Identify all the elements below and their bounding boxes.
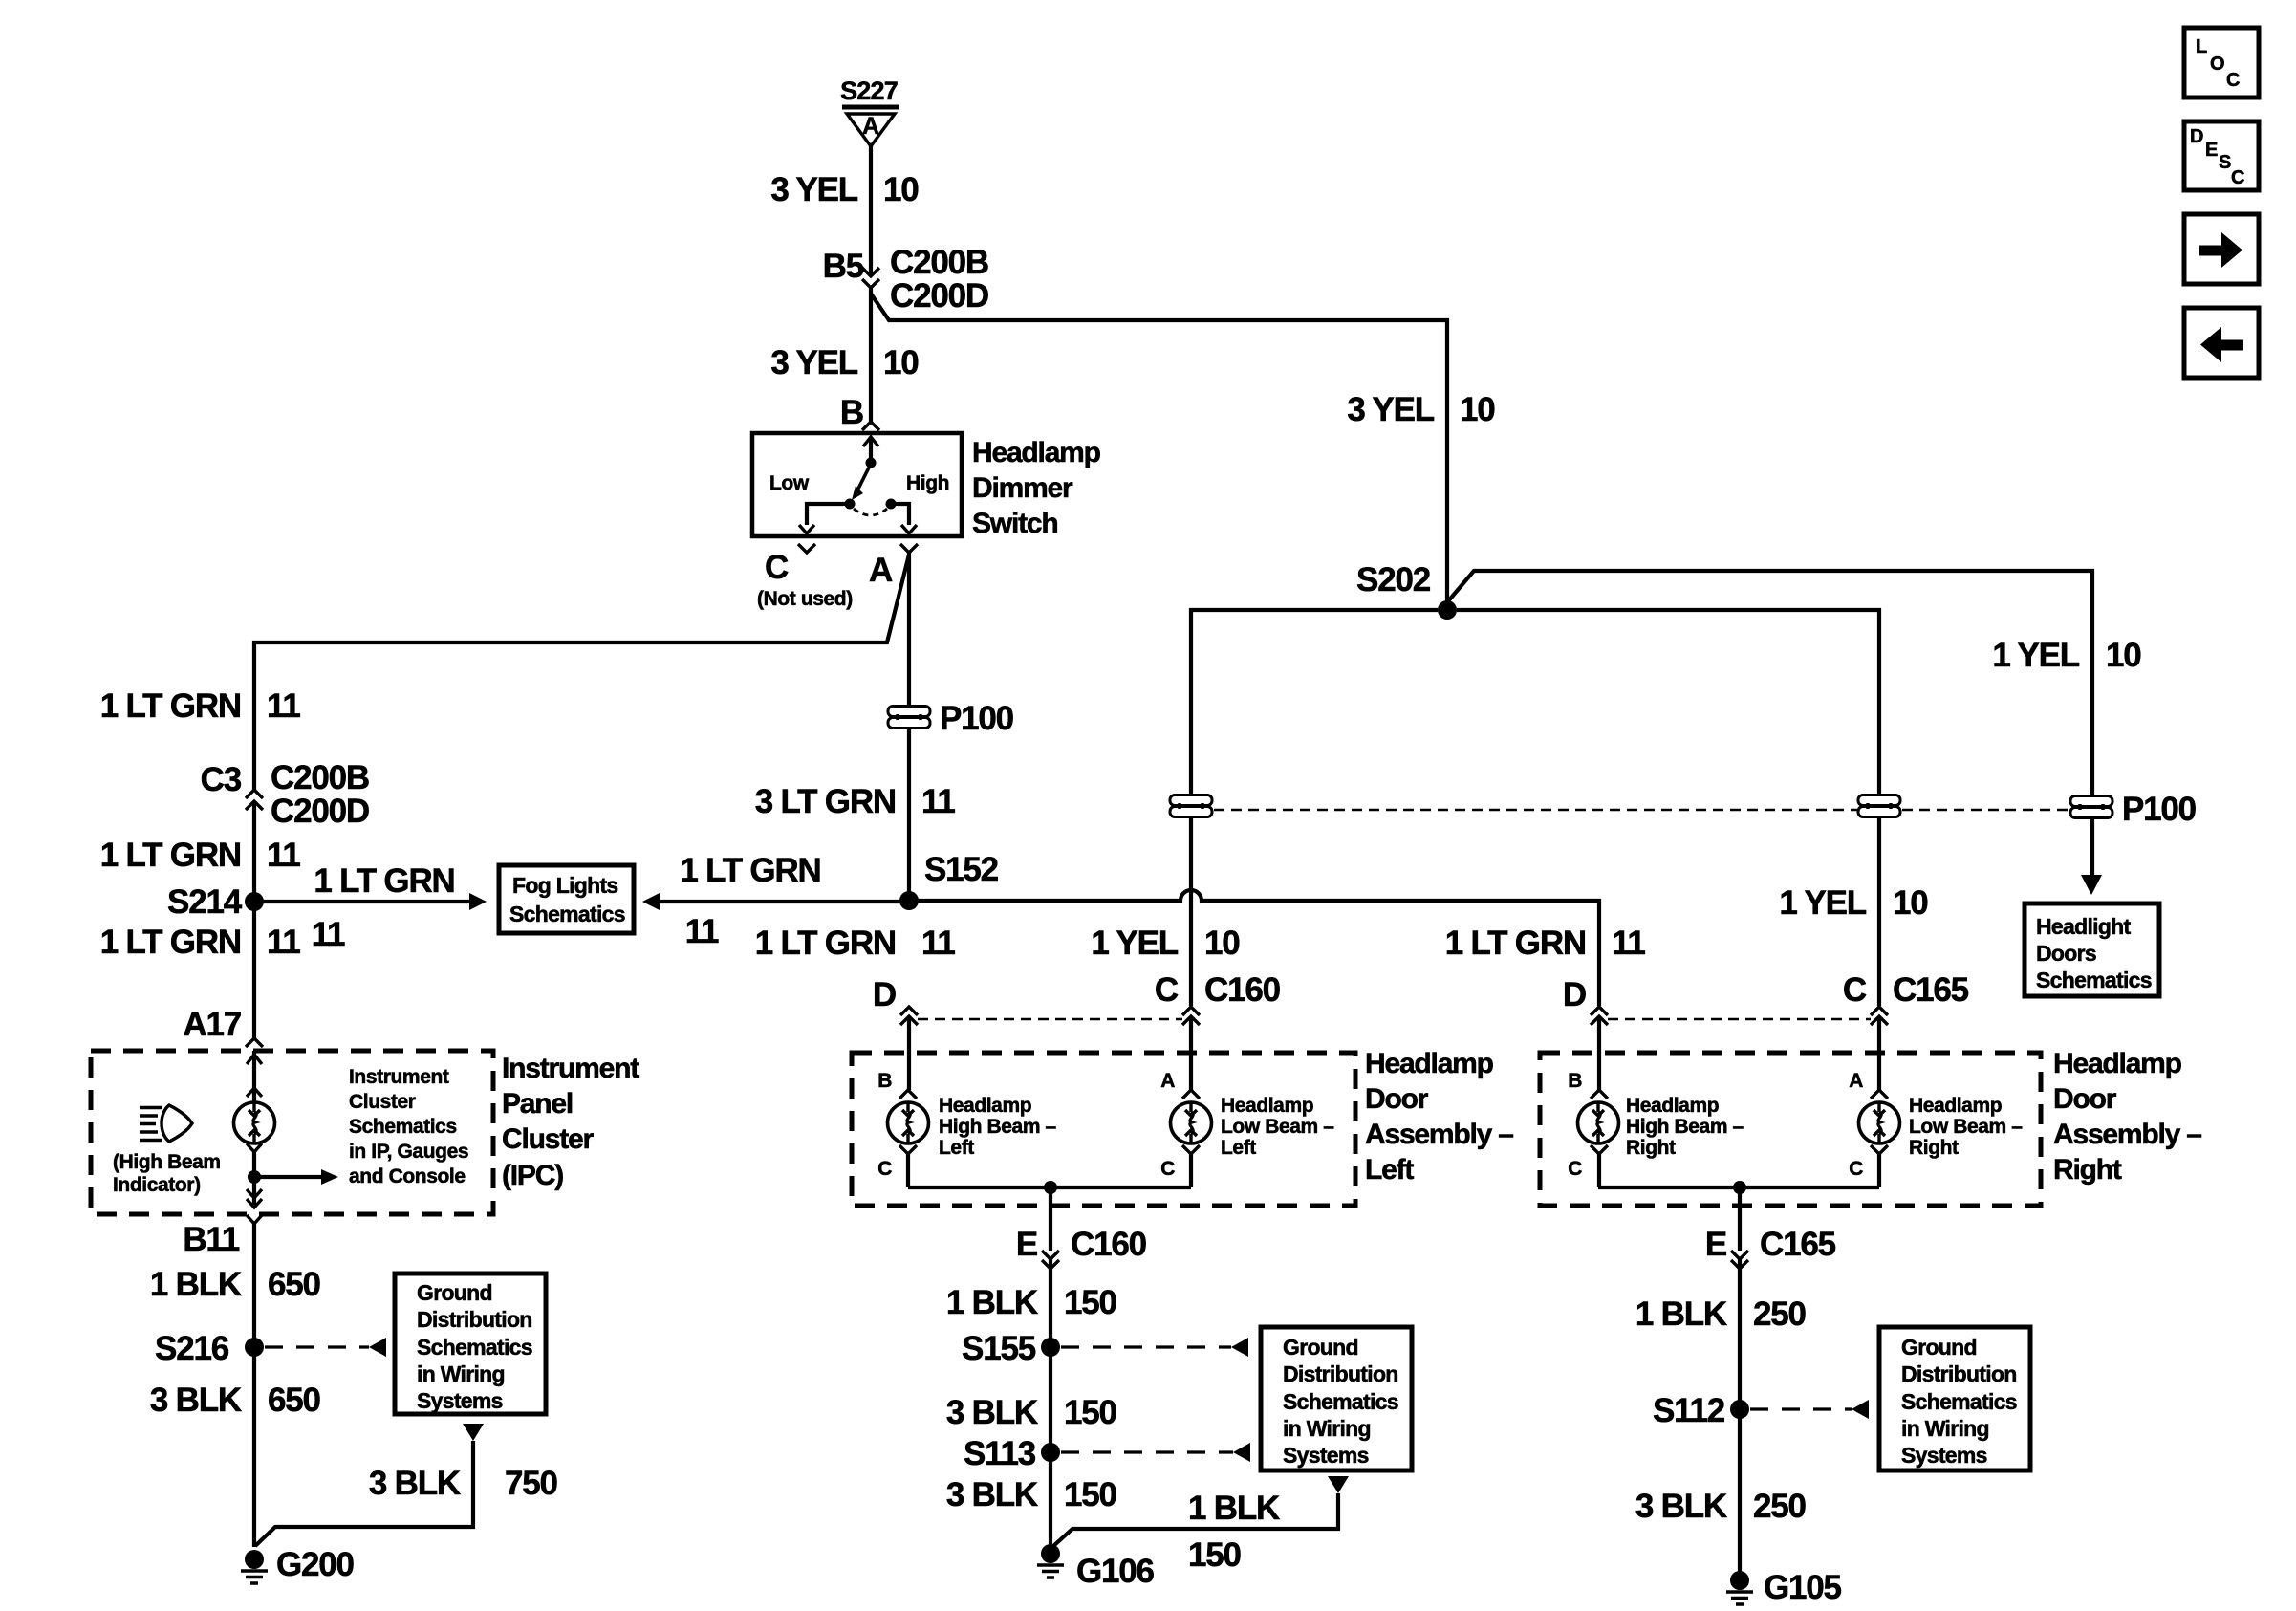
svg-text:C160: C160: [1071, 1226, 1147, 1263]
svg-text:S: S: [2219, 152, 2231, 173]
svg-text:Right: Right: [1909, 1137, 1959, 1159]
wire 3 BLK 750 from box to G200: [255, 1441, 473, 1546]
wire high beam to common: [906, 1154, 910, 1187]
pin B11 chevron below IPC: [247, 1215, 262, 1224]
svg-text:3 BLK: 3 BLK: [150, 1382, 242, 1419]
svg-text:(Not used): (Not used): [757, 588, 853, 610]
svg-text:Door: Door: [2053, 1083, 2117, 1115]
svg-text:and Console: and Console: [349, 1165, 466, 1187]
arrow into headlight doors box: [2081, 875, 2102, 895]
svg-text:Distribution: Distribution: [417, 1307, 532, 1332]
ground distribution box (left): [395, 1274, 546, 1414]
splice S227 off-page symbol: [840, 76, 899, 146]
fog lights schematics box: [499, 865, 634, 933]
wire high beam to common (right): [1597, 1154, 1601, 1187]
label 3 BLK 750: [369, 1465, 558, 1502]
arrowhead from ground distribution box down: [1328, 1476, 1349, 1493]
svg-text:Left: Left: [1365, 1154, 1414, 1186]
wire S152 right with hop over yellow wire, down to D chevron: [909, 890, 1599, 1006]
svg-text:C: C: [1160, 1158, 1175, 1180]
wire E to G105: [1738, 1259, 1742, 1574]
wire common to E pin: [1049, 1187, 1052, 1251]
svg-text:1 LT GRN: 1 LT GRN: [680, 852, 820, 889]
svg-text:S113: S113: [964, 1435, 1036, 1472]
svg-text:Headlamp: Headlamp: [1626, 1095, 1719, 1117]
svg-text:D: D: [1563, 976, 1586, 1013]
svg-text:Indicator): Indicator): [113, 1174, 201, 1196]
svg-text:Schematics: Schematics: [2036, 968, 2152, 992]
label 3 BLK 650: [150, 1382, 321, 1419]
wire B11 to G200: [252, 1224, 256, 1547]
svg-text:B: B: [1568, 1070, 1582, 1092]
svg-text:11: 11: [267, 924, 300, 961]
svg-text:High Beam –: High Beam –: [1626, 1116, 1744, 1138]
previous page button (left arrow): [2184, 308, 2259, 378]
headlamp door assembly right title: [2053, 1048, 2201, 1186]
wire low beam to common (right): [1877, 1154, 1881, 1187]
pin C chevron (left low beam): [1182, 1145, 1200, 1154]
pin A chevron: [900, 544, 918, 553]
svg-text:Systems: Systems: [1283, 1443, 1369, 1468]
label 3 BLK 150 (below S113): [946, 1476, 1117, 1513]
headlamp dimmer switch box: [752, 433, 962, 536]
headlamp high beam left bulb: [888, 1102, 929, 1143]
pin B chevron: [862, 422, 879, 430]
svg-text:Right: Right: [2053, 1154, 2122, 1186]
headlamp high beam right bulb: [1578, 1102, 1619, 1143]
svg-text:High Beam –: High Beam –: [939, 1116, 1057, 1138]
splice S202 junction dot: [1438, 600, 1457, 620]
connector C160 pin C chevrons: [1182, 1007, 1200, 1025]
svg-text:Fog Lights: Fog Lights: [512, 873, 618, 898]
svg-text:C: C: [2226, 70, 2240, 91]
wire S152 to fog lights arrow: [660, 900, 909, 903]
svg-text:1 YEL: 1 YEL: [1779, 884, 1866, 922]
pin C chevron (right high beam): [1591, 1145, 1608, 1154]
svg-text:11: 11: [921, 925, 955, 962]
connector C165 pin D chevrons: [1591, 1007, 1608, 1025]
svg-text:Schematics: Schematics: [1283, 1389, 1398, 1414]
svg-text:1 YEL: 1 YEL: [1091, 925, 1178, 962]
wire S214 down to A17 / IPC: [252, 902, 256, 1038]
wire A17 into IPC: [252, 1051, 256, 1102]
svg-text:C200B: C200B: [271, 759, 369, 796]
chevron below indicator bulb: [247, 1143, 262, 1152]
dimmer switch label: [972, 437, 1101, 539]
arrow into fog lights box (from right): [642, 893, 660, 910]
svg-text:10: 10: [2106, 637, 2141, 674]
svg-text:Dimmer: Dimmer: [972, 472, 1073, 504]
arrowhead from left ground distribution box down: [463, 1424, 484, 1441]
headlight doors schematics box: [2025, 903, 2159, 996]
svg-text:E: E: [2205, 140, 2218, 161]
svg-text:1 LT GRN: 1 LT GRN: [100, 924, 241, 961]
grommet (right low beam wire): [1858, 795, 1900, 817]
label 3 YEL 10 (S202 feed): [1347, 391, 1495, 428]
pass-through grommet P100 (main): [888, 707, 930, 729]
ground G200: [241, 1550, 268, 1583]
svg-text:B11: B11: [183, 1221, 239, 1258]
svg-text:E: E: [1016, 1226, 1037, 1263]
svg-text:Instrument: Instrument: [349, 1066, 449, 1088]
wire S214 to fog lights arrow: [254, 900, 469, 903]
svg-text:Headlamp: Headlamp: [1221, 1095, 1313, 1117]
svg-text:10: 10: [1893, 884, 1928, 922]
svg-text:S152: S152: [924, 851, 999, 888]
wire C chevron into left box: [1189, 1016, 1193, 1090]
svg-text:Instrument: Instrument: [502, 1053, 639, 1084]
label 1 LT GRN 11 (below S214): [100, 924, 301, 961]
svg-text:Headlamp: Headlamp: [2053, 1048, 2182, 1079]
svg-text:in Wiring: in Wiring: [1901, 1416, 1989, 1441]
svg-text:Assembly –: Assembly –: [2053, 1119, 2201, 1150]
wire S227 to connector C200: [869, 146, 873, 274]
svg-text:C: C: [1843, 971, 1867, 1009]
pin B chevron (right high beam): [1591, 1090, 1608, 1099]
svg-text:Left: Left: [939, 1137, 974, 1159]
svg-text:Schematics: Schematics: [349, 1116, 457, 1138]
svg-text:3 LT GRN: 3 LT GRN: [755, 783, 896, 820]
dashed reference S216 to ground distribution box: [265, 1345, 369, 1348]
pin B chevron (left high beam): [899, 1090, 917, 1099]
label 1 LT GRN 11 (left high beam): [755, 925, 956, 962]
svg-text:3 BLK: 3 BLK: [946, 1394, 1038, 1431]
splice S113 junction dot: [1041, 1443, 1060, 1462]
dimmer switch internals: [769, 437, 949, 533]
common ground wire inside right box: [1598, 1186, 1879, 1189]
svg-text:Ground: Ground: [1283, 1335, 1358, 1360]
wire 1 BLK 150 from box to G106: [1052, 1493, 1338, 1547]
svg-text:1 LT GRN: 1 LT GRN: [100, 837, 241, 874]
pin A17 chevron: [246, 1038, 263, 1047]
svg-text:Ground: Ground: [1901, 1335, 1977, 1360]
dashed connector line C160: [918, 1018, 1182, 1021]
svg-text:Headlamp: Headlamp: [1909, 1095, 2002, 1117]
label 3 BLK 150 (above S113): [946, 1394, 1117, 1431]
headlamp low beam right bulb: [1859, 1102, 1900, 1143]
splice S112 junction dot: [1730, 1400, 1749, 1419]
connector C165 pin C chevrons: [1871, 1007, 1888, 1025]
svg-text:S155: S155: [962, 1330, 1036, 1367]
svg-text:A: A: [1160, 1070, 1175, 1092]
svg-text:Distribution: Distribution: [1901, 1361, 2017, 1386]
label 1 YEL 10 (far right feed): [1992, 637, 2141, 674]
svg-text:in Wiring: in Wiring: [417, 1361, 505, 1386]
splice S152 junction dot: [899, 891, 919, 910]
svg-text:A: A: [862, 113, 879, 140]
svg-text:G106: G106: [1076, 1553, 1155, 1590]
svg-text:Schematics: Schematics: [417, 1335, 532, 1360]
svg-text:High: High: [906, 472, 949, 494]
svg-text:Schematics: Schematics: [509, 902, 625, 926]
svg-text:11: 11: [1612, 925, 1645, 962]
svg-text:C200D: C200D: [271, 793, 369, 830]
headlamp door assembly left title: [1365, 1048, 1513, 1186]
label 3 YEL 10 (top): [770, 171, 919, 208]
svg-text:Headlamp: Headlamp: [939, 1095, 1031, 1117]
svg-text:150: 150: [1064, 1284, 1117, 1321]
wire D chevron into left box: [907, 1016, 911, 1090]
DESC button: [2184, 121, 2259, 190]
svg-text:Left: Left: [1221, 1137, 1256, 1159]
ground G106: [1037, 1544, 1064, 1578]
svg-text:C160: C160: [1204, 971, 1281, 1009]
common ground wire inside left box: [908, 1186, 1191, 1189]
svg-text:250: 250: [1753, 1295, 1807, 1333]
svg-text:C: C: [877, 1158, 892, 1180]
dashed reference S113 to ground distribution box: [1061, 1450, 1233, 1453]
wire C chevron into right box: [1877, 1016, 1881, 1090]
svg-text:S227: S227: [840, 76, 898, 105]
svg-text:1 LT GRN: 1 LT GRN: [1445, 925, 1586, 962]
headlamp high beam right label: [1626, 1095, 1744, 1159]
svg-text:Low Beam –: Low Beam –: [1221, 1116, 1334, 1138]
connector C200B/C200D in-line (pin B5): [862, 268, 879, 288]
svg-text:1 YEL: 1 YEL: [1992, 637, 2079, 674]
svg-text:G200: G200: [276, 1546, 355, 1583]
headlamp door assembly left (dashed box): [852, 1053, 1355, 1206]
pin A chevron (right low beam): [1871, 1090, 1888, 1099]
pin C chevron (right low beam): [1871, 1145, 1888, 1154]
(High Beam Indicator) note: [113, 1151, 221, 1196]
svg-text:B: B: [840, 394, 863, 431]
connector C200B/C200D (pin C3): [246, 790, 263, 810]
svg-text:1 BLK: 1 BLK: [150, 1266, 242, 1303]
svg-text:11: 11: [267, 837, 300, 874]
svg-text:Distribution: Distribution: [1283, 1361, 1398, 1386]
dashed reference S112 to ground distribution box: [1750, 1407, 1852, 1410]
svg-text:11: 11: [685, 913, 719, 950]
dashed connector line C165: [1608, 1018, 1871, 1021]
svg-text:10: 10: [883, 171, 919, 208]
svg-text:Headlight: Headlight: [2036, 914, 2132, 939]
ground distribution box (middle): [1261, 1327, 1412, 1470]
grommet (left low beam wire): [1170, 795, 1212, 817]
svg-text:Headlamp: Headlamp: [1365, 1048, 1494, 1079]
svg-text:1 LT GRN: 1 LT GRN: [100, 687, 241, 725]
arrow up inside IPC: [247, 1055, 262, 1064]
svg-text:Switch: Switch: [972, 508, 1057, 539]
junction dot inside IPC: [248, 1170, 261, 1184]
label 1 YEL 10 (left low beam): [1091, 925, 1240, 962]
high beam indicator icon: [140, 1105, 192, 1142]
label 1 YEL 10 (right low beam): [1779, 884, 1928, 922]
label 1 BLK 650: [150, 1266, 321, 1303]
arrowhead (S112 reference): [1852, 1400, 1869, 1419]
svg-text:C: C: [1568, 1158, 1582, 1180]
connector C165 pin E chevrons: [1731, 1251, 1748, 1269]
svg-text:150: 150: [1064, 1476, 1117, 1513]
svg-text:L: L: [2196, 36, 2207, 57]
pin A chevron (left low beam): [1182, 1090, 1200, 1099]
svg-text:G105: G105: [1764, 1569, 1842, 1606]
headlamp low beam right label: [1909, 1095, 2023, 1159]
svg-text:1 BLK: 1 BLK: [1635, 1295, 1727, 1333]
svg-text:Schematics: Schematics: [1901, 1389, 2017, 1414]
svg-text:Right: Right: [1626, 1137, 1676, 1159]
svg-text:Assembly –: Assembly –: [1365, 1119, 1513, 1150]
svg-text:P100: P100: [2122, 791, 2197, 828]
dashed reference S155 to ground distribution box: [1061, 1345, 1231, 1348]
arrowhead (S216 reference): [369, 1338, 386, 1357]
svg-text:650: 650: [268, 1382, 321, 1419]
svg-text:11: 11: [267, 687, 300, 725]
splice S214 junction dot: [245, 892, 264, 911]
ground distribution box (right): [1879, 1327, 2030, 1470]
svg-text:A: A: [1849, 1070, 1863, 1092]
svg-text:P100: P100: [940, 700, 1014, 737]
svg-text:S216: S216: [155, 1330, 229, 1367]
splice S155 junction dot: [1041, 1338, 1060, 1357]
wire E to G106: [1049, 1259, 1052, 1547]
svg-text:A: A: [869, 552, 893, 589]
svg-text:1 BLK: 1 BLK: [946, 1284, 1038, 1321]
label 1 LT GRN 11 (above S214): [100, 837, 301, 874]
svg-text:750: 750: [505, 1465, 558, 1502]
headlamp low beam left bulb: [1171, 1102, 1212, 1143]
svg-text:Low Beam –: Low Beam –: [1909, 1116, 2023, 1138]
svg-text:Systems: Systems: [1901, 1443, 1987, 1468]
svg-text:S112: S112: [1653, 1392, 1725, 1429]
wire common to E pin (right): [1738, 1187, 1742, 1251]
svg-text:Cluster: Cluster: [349, 1091, 416, 1113]
svg-text:(High Beam: (High Beam: [113, 1151, 221, 1173]
wire C3 to S214: [252, 801, 256, 902]
svg-text:3 BLK: 3 BLK: [1635, 1488, 1727, 1525]
svg-text:C: C: [2231, 167, 2244, 188]
splice S216 junction dot: [245, 1338, 264, 1357]
svg-text:Low: Low: [769, 472, 810, 494]
wire bulb to B11: [252, 1152, 256, 1208]
label 1 BLK 250: [1635, 1295, 1807, 1333]
svg-text:10: 10: [1460, 391, 1495, 428]
wire low beam to common: [1189, 1154, 1193, 1187]
svg-text:11: 11: [921, 783, 955, 820]
svg-text:D: D: [873, 976, 896, 1013]
svg-text:E: E: [1705, 1226, 1726, 1263]
headlamp low beam left label: [1221, 1095, 1334, 1159]
wire S202 to P100 right (diagonal + horizontal + down): [1447, 571, 2092, 875]
arrow to cluster schematics note: [254, 1175, 321, 1179]
label 3 YEL 10 (below C200): [770, 344, 919, 381]
connector C160 pin D chevrons: [900, 1007, 918, 1025]
svg-text:10: 10: [1204, 925, 1240, 962]
wire C200D to dimmer switch B: [869, 288, 873, 422]
svg-text:Doors: Doors: [2036, 941, 2096, 966]
arrowhead (S113 reference): [1233, 1443, 1250, 1462]
svg-text:C: C: [1155, 971, 1179, 1009]
next page button (right arrow): [2184, 214, 2259, 284]
svg-text:C165: C165: [1893, 971, 1969, 1009]
svg-text:3 YEL: 3 YEL: [770, 171, 857, 208]
label 3 BLK 250: [1635, 1488, 1807, 1525]
svg-text:D: D: [2190, 126, 2203, 147]
svg-text:150: 150: [1064, 1394, 1117, 1431]
ground G105: [1726, 1571, 1753, 1604]
svg-text:S214: S214: [167, 883, 243, 921]
svg-text:1 BLK: 1 BLK: [1188, 1490, 1280, 1527]
svg-text:10: 10: [883, 344, 919, 381]
svg-text:B: B: [877, 1070, 892, 1092]
junction dot (right box common): [1733, 1181, 1746, 1194]
svg-text:in Wiring: in Wiring: [1283, 1416, 1371, 1441]
left chain: label 1 LT GRN 11 (top of left leg): [100, 687, 301, 725]
svg-text:S202: S202: [1356, 561, 1431, 599]
svg-text:C: C: [765, 549, 789, 586]
wire branch to S202 (diagonal + horizontal + vertical): [871, 294, 1447, 602]
svg-text:Door: Door: [1365, 1083, 1429, 1115]
svg-text:150: 150: [1188, 1536, 1242, 1574]
label 1 LT GRN 11 (right high beam): [1445, 925, 1646, 962]
arrow into fog lights box (from left): [469, 893, 487, 910]
svg-text:(IPC): (IPC): [502, 1160, 563, 1191]
svg-text:650: 650: [268, 1266, 321, 1303]
svg-text:B5: B5: [823, 248, 864, 285]
wire dimmer A down to S152: [907, 553, 911, 901]
svg-text:in IP, Gauges: in IP, Gauges: [349, 1141, 468, 1163]
wire branch A to instrument cluster (diagonal + horizontal + down left side): [254, 555, 909, 790]
svg-text:11: 11: [312, 916, 345, 953]
headlamp high beam left label: [939, 1095, 1057, 1159]
svg-text:A17: A17: [183, 1006, 241, 1043]
svg-text:Panel: Panel: [502, 1088, 573, 1120]
double chevron arrow down (IPC exit): [247, 1189, 262, 1208]
svg-text:Headlamp: Headlamp: [972, 437, 1101, 468]
svg-text:1 LT GRN: 1 LT GRN: [755, 925, 896, 962]
instrument panel cluster title: [502, 1053, 639, 1191]
chevron above indicator bulb: [247, 1088, 262, 1097]
label 1 BLK 150: [946, 1284, 1117, 1321]
LOC button: [2184, 28, 2259, 98]
svg-text:1 LT GRN: 1 LT GRN: [314, 862, 454, 900]
wire S202 left branch to left low beam: [1191, 610, 1438, 1006]
svg-text:C200D: C200D: [890, 277, 988, 315]
pin C chevron (left high beam): [899, 1145, 917, 1154]
junction dot (left box common): [1044, 1181, 1057, 1194]
svg-text:C200B: C200B: [890, 244, 988, 281]
svg-text:C3: C3: [201, 761, 242, 798]
svg-text:Ground: Ground: [417, 1280, 492, 1305]
svg-text:3 BLK: 3 BLK: [369, 1465, 461, 1502]
svg-text:Cluster: Cluster: [502, 1123, 594, 1155]
wire S202 right branch to right low beam: [1457, 610, 1879, 1006]
svg-text:Systems: Systems: [417, 1388, 503, 1413]
svg-text:3 BLK: 3 BLK: [946, 1476, 1038, 1513]
svg-text:O: O: [2210, 54, 2225, 75]
instrument panel cluster box (dashed): [91, 1051, 493, 1214]
pin C chevron (not used): [798, 544, 815, 553]
connector C160 pin E chevrons: [1042, 1251, 1059, 1269]
svg-text:C: C: [1849, 1158, 1863, 1180]
headlamp door assembly right (dashed box): [1540, 1053, 2041, 1206]
instrument cluster schematics note: [349, 1066, 468, 1187]
arrowhead (S155 reference): [1231, 1338, 1248, 1357]
dashed bulkhead line through grommets: [1214, 809, 2069, 812]
svg-text:3 YEL: 3 YEL: [770, 344, 857, 381]
high beam indicator bulb: [234, 1102, 275, 1143]
label 3 LT GRN 11: [755, 783, 956, 820]
grommet P100 (far right): [2070, 796, 2112, 818]
svg-text:250: 250: [1753, 1488, 1807, 1525]
wire D chevron into right box: [1597, 1016, 1601, 1090]
svg-text:C165: C165: [1760, 1226, 1836, 1263]
svg-text:3 YEL: 3 YEL: [1347, 391, 1434, 428]
